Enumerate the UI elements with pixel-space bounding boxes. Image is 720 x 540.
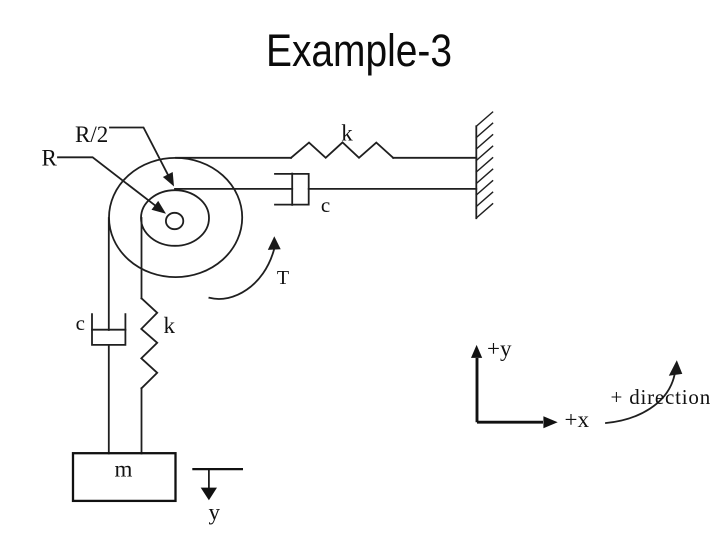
svg-text:Example-3: Example-3: [266, 25, 452, 76]
arrowhead +x: [543, 416, 557, 428]
svg-text:c: c: [76, 311, 85, 335]
svg-text:y: y: [209, 500, 221, 525]
wall (fixed support): [475, 126, 477, 218]
mass m: [73, 453, 176, 501]
svg-text:R: R: [42, 145, 58, 170]
wire rod pulley to spring k (vertical): [141, 218, 143, 298]
svg-text:+ direction: + direction: [611, 385, 712, 409]
leader line R/2: [110, 128, 168, 175]
wire top rope to spring k: [176, 157, 291, 159]
svg-text:k: k: [341, 121, 353, 146]
leader line R: [58, 157, 155, 205]
svg-text:c: c: [321, 193, 330, 217]
damper c (horizontal) cylinder: [275, 174, 309, 205]
wire damper c to wall: [309, 188, 477, 190]
spring k (horizontal): [291, 142, 393, 157]
wire spring k to mass: [141, 388, 143, 453]
svg-text:m: m: [115, 457, 133, 482]
wire rod pulley to damper c (vertical): [108, 218, 110, 330]
datum line: [192, 468, 243, 470]
svg-text:+y: +y: [487, 336, 512, 361]
direction curved arrow: [606, 375, 675, 423]
datum arrowhead y: [201, 488, 217, 501]
damper c (vertical) cylinder: [92, 314, 125, 345]
torque arc T: [209, 250, 274, 299]
datum arrow stem: [208, 469, 210, 488]
wire spring k to wall: [393, 157, 476, 159]
arrowhead +y: [471, 345, 482, 358]
svg-text:R/2: R/2: [75, 122, 108, 147]
arrowhead R: [152, 201, 167, 214]
pulley hub: [166, 213, 183, 229]
pulley middle circle R/2: [141, 190, 209, 246]
svg-text:+x: +x: [565, 407, 590, 432]
arrowhead torque T: [268, 236, 281, 250]
damper c (horizontal) piston plate: [291, 174, 293, 205]
damper c (vertical) piston plate: [92, 329, 125, 331]
arrowhead R/2: [163, 172, 174, 187]
wire rope to damper c (horizontal): [175, 188, 292, 190]
pulley outer circle R: [109, 158, 242, 277]
svg-text:k: k: [164, 313, 176, 338]
wall hatching: [476, 112, 492, 218]
wire damper c to mass: [108, 345, 110, 454]
svg-text:T: T: [277, 267, 289, 289]
axis y: [476, 358, 479, 422]
spring k (vertical): [141, 298, 157, 388]
arrowhead direction: [669, 360, 683, 376]
axis x: [477, 421, 543, 424]
